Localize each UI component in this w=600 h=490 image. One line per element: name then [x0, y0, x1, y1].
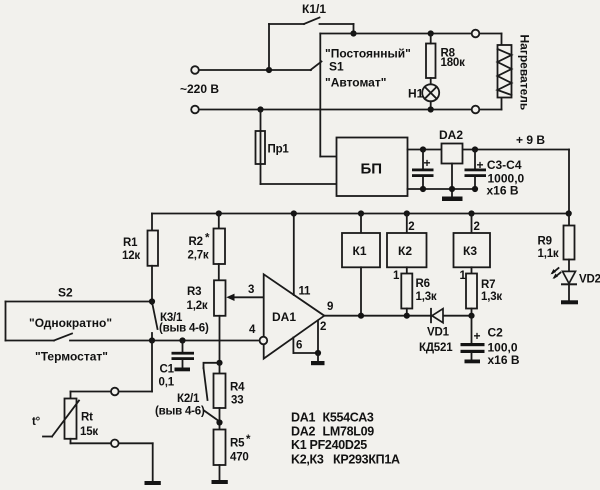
svg-text:R4: R4 [230, 382, 245, 394]
node junction at x269 on upper 220V wire [266, 67, 272, 73]
svg-text:R1: R1 [123, 237, 138, 249]
connector circle top to heater [472, 30, 480, 38]
switch S2 loop [6, 302, 260, 341]
svg-text:t°: t° [32, 416, 41, 428]
svg-text:S1: S1 [329, 60, 344, 74]
relay K1 [342, 210, 380, 318]
svg-text:3: 3 [248, 284, 254, 296]
ground below VD2 [561, 300, 578, 304]
node R1/S2 junction [149, 298, 155, 304]
resistor R6 [401, 274, 412, 319]
wire +9V output rail [408, 150, 570, 214]
svg-text:К554СА3: К554СА3 [323, 411, 374, 425]
relay K3 [454, 210, 491, 273]
svg-text:1,2к: 1,2к [187, 300, 208, 312]
svg-text:КД521: КД521 [419, 342, 453, 354]
svg-text:С2: С2 [488, 326, 504, 340]
svg-text:470: 470 [230, 452, 249, 464]
resistor R4 [214, 363, 226, 430]
svg-text:11: 11 [299, 286, 312, 298]
svg-text:VD1: VD1 [427, 327, 450, 339]
svg-text:К2: К2 [398, 244, 412, 258]
svg-text:х16 В: х16 В [487, 184, 519, 198]
node S2/K3 junction [149, 337, 155, 343]
svg-text:0,1: 0,1 [159, 377, 175, 389]
svg-text:DA2: DA2 [291, 425, 315, 439]
svg-text:R2: R2 [189, 236, 203, 248]
svg-text:1,3к: 1,3к [416, 291, 437, 303]
relay K2 [387, 210, 427, 273]
svg-text:R7: R7 [481, 279, 495, 291]
capacitor C2 [461, 316, 485, 360]
svg-text:"Автомат": "Автомат" [325, 76, 386, 90]
svg-text:LM78L09: LM78L09 [323, 425, 375, 439]
svg-text:К3: К3 [463, 244, 477, 258]
relay contact K1/1 [269, 18, 354, 71]
wire DA2 ground pin [449, 164, 455, 197]
relay contact K3/1 [152, 302, 158, 341]
lamp H1 [422, 84, 439, 112]
wire top rail y33.5 [320, 33, 501, 35]
connector circle bottom to heater [472, 106, 480, 114]
fuse Пр1 [256, 106, 337, 184]
resistor R7 [466, 274, 477, 319]
svg-text:4: 4 [249, 324, 256, 336]
ground below R5 [212, 480, 228, 484]
svg-text:2,7к: 2,7к [188, 250, 209, 262]
pin 2 wire [317, 321, 319, 354]
resistor R5 [214, 430, 226, 481]
svg-text:9: 9 [327, 301, 333, 313]
svg-text:х16 В: х16 В [488, 353, 520, 367]
svg-text:КР293КП1А: КР293КП1А [333, 453, 400, 467]
ground below Rt [145, 481, 161, 485]
svg-text:DA1: DA1 [272, 310, 296, 324]
svg-text:"Термостат": "Термостат" [35, 350, 108, 364]
svg-text:"Постоянный": "Постоянный" [325, 47, 411, 61]
ground below DA2 [442, 197, 463, 202]
svg-text:R5: R5 [230, 438, 245, 450]
svg-text:Нагреватель: Нагреватель [518, 35, 532, 111]
svg-text:S2: S2 [58, 286, 73, 300]
svg-text:"Однократно": "Однократно" [29, 316, 112, 330]
resistor R1 [148, 214, 159, 302]
svg-text:+ С3-С4: + С3-С4 [477, 158, 522, 172]
svg-text:С1: С1 [160, 364, 175, 376]
connector circle Rt bottom [111, 440, 119, 448]
svg-text:К1/1: К1/1 [302, 2, 326, 16]
svg-text:K2,К3: K2,К3 [291, 453, 324, 467]
wire S1 feed to power supply [320, 34, 336, 157]
resistor R8 [426, 30, 436, 84]
capacitor C4 [465, 146, 487, 192]
pin 9 output wire [324, 315, 471, 317]
svg-text:~220 В: ~220 В [180, 82, 219, 96]
svg-text:+: + [424, 156, 431, 170]
node junction K1/1 to top rail [350, 30, 356, 36]
resistor R2 [214, 210, 226, 280]
thermistor Rt [43, 341, 153, 482]
resistor R9 [564, 214, 575, 272]
regulator DA2 [442, 144, 463, 164]
switch S1 [311, 62, 322, 71]
svg-text:2: 2 [474, 221, 480, 233]
svg-text:К1: К1 [353, 244, 367, 258]
terminal lower ~220V [191, 106, 199, 114]
capacitor C3 [412, 146, 434, 192]
op-amp DA1 [264, 274, 325, 358]
trimmer resistor R3 [214, 280, 226, 363]
svg-text:180к: 180к [441, 57, 466, 69]
LED VD2 [551, 268, 577, 300]
wire upper 220V lead [199, 69, 311, 71]
wire control +9V rail [152, 210, 572, 216]
diode VD1 [431, 309, 443, 323]
pin 4 inverting input circle [260, 337, 268, 345]
svg-text:VD2: VD2 [579, 274, 600, 286]
wire ground output rail [408, 188, 476, 190]
svg-text:33: 33 [231, 395, 243, 407]
svg-text:*: * [246, 434, 251, 446]
heater element [498, 34, 512, 110]
pin 6 wire [293, 338, 321, 357]
svg-text:1: 1 [393, 270, 400, 282]
svg-text:+ 9 В: + 9 В [516, 133, 545, 147]
svg-text:R3: R3 [187, 286, 201, 298]
pin 11 wire [291, 210, 297, 295]
svg-text:12к: 12к [122, 250, 140, 262]
svg-text:К2/1: К2/1 [177, 393, 200, 405]
power supply box БП [337, 138, 408, 197]
svg-text:Пр1: Пр1 [268, 144, 290, 156]
svg-text:DA2: DA2 [439, 128, 463, 142]
ground below C2 [465, 360, 481, 364]
svg-text:2: 2 [320, 321, 326, 333]
svg-text:(выв 4-6): (выв 4-6) [155, 406, 205, 418]
svg-text:K1 PF240D25: K1 PF240D25 [291, 438, 367, 452]
svg-text:Rt: Rt [81, 412, 93, 424]
svg-text:2: 2 [408, 221, 414, 233]
svg-text:*: * [205, 233, 210, 245]
svg-text:15к: 15к [80, 426, 98, 438]
svg-text:DA1: DA1 [291, 411, 315, 425]
terminal upper ~220V [191, 66, 199, 74]
relay contact K2/1 [204, 360, 223, 422]
svg-text:R9: R9 [538, 236, 552, 248]
connector circle Rt top [111, 388, 119, 396]
svg-text:БП: БП [361, 161, 383, 178]
ground below C1 [175, 368, 191, 372]
wire lower 220V rail [199, 109, 502, 111]
wire R3 wiper to pin 3 [226, 294, 263, 301]
capacitor C1 [172, 337, 195, 367]
svg-text:1,1к: 1,1к [538, 248, 559, 260]
svg-text:(выв 4-6): (выв 4-6) [159, 323, 209, 335]
svg-text:1,3к: 1,3к [481, 291, 502, 303]
svg-text:R6: R6 [416, 278, 430, 290]
ground below op-amp [311, 353, 325, 365]
svg-text:6: 6 [296, 340, 302, 352]
svg-text:+: + [474, 329, 481, 343]
svg-text:Н1: Н1 [408, 87, 424, 101]
